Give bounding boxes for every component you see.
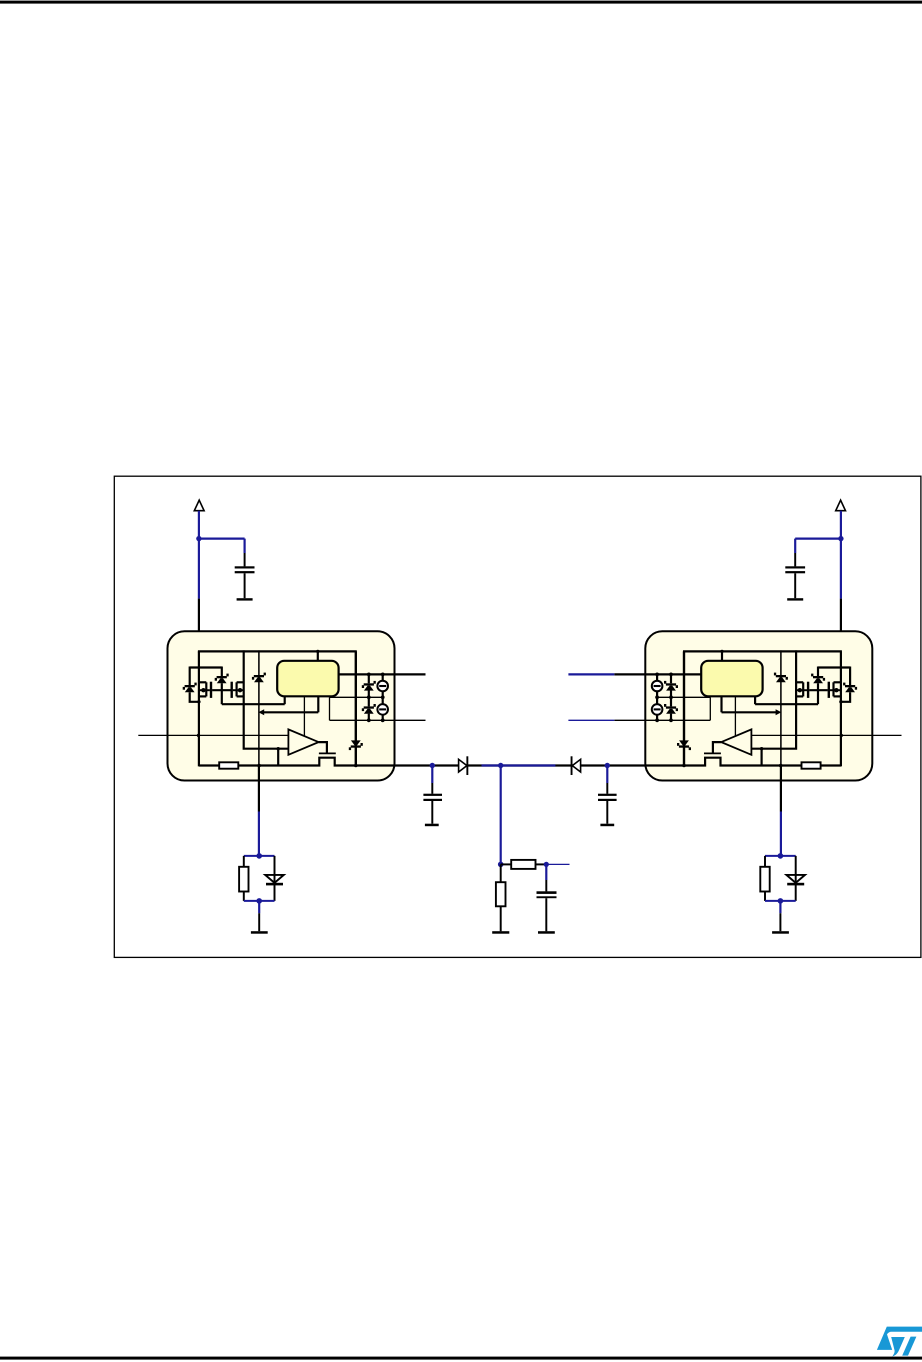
node clamp to rail [839, 700, 842, 703]
node middle network left [498, 862, 504, 868]
ground bar of C5 [538, 931, 555, 934]
node amp input junction [277, 747, 280, 750]
wire feedback line below IC [780, 766, 782, 812]
node top of network 6 right [778, 853, 784, 859]
zener D3 on feedback line [776, 675, 786, 677]
wire to ground 5 left [258, 901, 260, 913]
wire network bottom bar 6 right [765, 900, 796, 902]
wire network top bar 6 right [765, 855, 796, 857]
node input line junction [840, 734, 843, 737]
wire logic to amp noninverting [303, 696, 305, 736]
ground bar 6 right [772, 931, 789, 934]
wire vertical feedback line [258, 650, 260, 765]
wire network bottom bar 5 left [244, 900, 275, 902]
pin logic block top [721, 651, 723, 660]
wire feedback line below IC [258, 766, 260, 812]
wire VCC vertical (blue) [840, 511, 842, 599]
wire stub right (thin blue) [546, 863, 569, 865]
node rail-feedback junction [779, 764, 783, 768]
node rail C [605, 763, 610, 768]
wire top supply bus [683, 650, 842, 652]
wire sense bus vertical [355, 651, 357, 765]
zener D4 clamp [189, 667, 191, 686]
arrow head [258, 709, 264, 715]
wire clamp box top [818, 666, 850, 668]
wire logic drive with arrow [317, 696, 319, 712]
wire VCC vertical into IC (black) [198, 599, 200, 653]
left half: IC U1 with supply branch [138, 500, 425, 856]
zener D4 clamp [849, 667, 851, 686]
wire logic drive with arrow [720, 696, 722, 712]
resistor R4 vertical [500, 864, 502, 882]
wire sense bus vertical [683, 651, 685, 765]
wire node B down [500, 766, 502, 865]
wire output rail with Q3 bump [645, 758, 841, 766]
resistor R3 horizontal [501, 863, 512, 865]
ground bar of C4 [600, 824, 614, 827]
wire blue segment of mid rail [482, 764, 556, 766]
wire stub lower (blue, right side) [568, 719, 614, 721]
pin logic block top [317, 651, 319, 660]
current source I2 [382, 691, 384, 704]
zener D6 on sense bus [351, 740, 361, 745]
top page rule [0, 1, 922, 4]
wire clamp box top [190, 666, 222, 668]
node logic top pin [720, 650, 723, 653]
capacitor C1 bypass [244, 553, 246, 566]
wire top supply bus [198, 650, 357, 652]
ground bar of C3 [425, 824, 439, 827]
wire input signal line [751, 734, 901, 736]
transistor Q3 output MOSFET gate [704, 752, 721, 754]
current source I2 [656, 691, 658, 704]
node rail A [430, 763, 435, 768]
resistor R6 right [764, 856, 766, 867]
wire drive rail (thick) [614, 673, 701, 675]
wire amp input to output rail [277, 749, 279, 766]
wire to ground 6 right [779, 901, 781, 913]
right half: IC U2 (mirrored copy) [614, 500, 901, 856]
capacitor C1 bypass [794, 553, 796, 566]
wire vertical feedback line [780, 650, 782, 765]
node logic top pin [316, 650, 319, 653]
current source I1 [656, 674, 658, 680]
node VCC junction [838, 536, 843, 541]
wire vertical to amp input [751, 650, 796, 748]
wire to bypass capacitor [198, 538, 245, 540]
wire amp output to gate [319, 742, 327, 753]
wire vertical to amp input [244, 650, 289, 748]
zener D3 on feedback line [254, 675, 264, 677]
ground bar of C1 [787, 598, 803, 600]
wire VCC vertical into IC (black) [840, 599, 842, 653]
node top of network 5 left [256, 853, 262, 859]
node bus to output rail [682, 764, 686, 768]
wire VCC vertical (blue) [198, 511, 200, 599]
wire to logic block bottom [222, 703, 285, 705]
wire to bypass capacitor [795, 538, 842, 540]
wire main vertical VCC inside IC [198, 651, 200, 766]
ground bar 5 left [251, 931, 268, 934]
capacitor C4 [606, 766, 608, 784]
wire amp input to output rail [761, 749, 763, 766]
node rail-feedback junction [257, 764, 261, 768]
node amp input junction [760, 747, 763, 750]
resistor R1 [802, 762, 821, 768]
charge pump logic block [701, 661, 762, 697]
wire mid rail (thin) [330, 696, 383, 698]
node chain junctions [367, 673, 371, 677]
power supply arrow VCC [836, 500, 846, 511]
IC U1 body [168, 631, 395, 780]
wire gate link Q1-Q2 [212, 689, 231, 691]
capacitor C3 [431, 766, 433, 784]
op-amp comparator U1A [288, 729, 318, 754]
wire logic to amp noninverting [734, 696, 736, 736]
wire gate link Q1-Q2 [809, 689, 828, 691]
wire mid-bottom link [329, 697, 331, 720]
wire stub upper (blue, right side) [568, 673, 614, 675]
zener D6 on sense bus [679, 740, 689, 745]
node middle network right [544, 862, 549, 867]
wire output rail with Q3 bump [199, 758, 395, 766]
zener D6 right [795, 856, 797, 901]
charge pump logic block [277, 661, 338, 697]
zener D5 gate protect [221, 667, 223, 677]
diode D2 [572, 759, 580, 772]
IC U1 body [645, 631, 872, 780]
wire main vertical VCC inside IC [840, 651, 842, 766]
wire to logic block bottom [755, 703, 818, 705]
wire mid-bottom link [709, 697, 711, 720]
bottom page rule [0, 1357, 922, 1360]
op-amp comparator U1A [721, 729, 751, 754]
node bottom of network 6 right [778, 898, 784, 904]
transistor Q3 output MOSFET gate [319, 752, 336, 754]
transistor Q1 [210, 682, 212, 698]
transistor Q2 [231, 682, 233, 698]
resistor R5 left [243, 856, 245, 867]
diode D1 [459, 759, 467, 772]
transistor Q2 [807, 682, 809, 698]
wire mid rail between ICs [395, 764, 646, 766]
zener D5 gate protect [817, 667, 819, 677]
zener chain D7 D8 [670, 674, 672, 683]
wire bottom rail (thin) [330, 719, 426, 721]
wire amp output to gate [713, 742, 721, 753]
node rail B [498, 763, 503, 768]
capacitor C5 [545, 864, 547, 880]
arrow head [776, 709, 782, 715]
current source I1 [382, 674, 384, 680]
figure frame [114, 476, 921, 957]
wire input signal line [138, 734, 288, 736]
wire bottom rail (thin) [614, 719, 710, 721]
ST logo [877, 1327, 922, 1357]
resistor R1 [219, 762, 238, 768]
node clamp to rail [197, 700, 200, 703]
power supply arrow VCC [194, 500, 204, 511]
node bus to output rail [354, 764, 358, 768]
ground bar of C1 [237, 598, 253, 600]
wire mid rail (thin) [657, 696, 710, 698]
ground bar of R4 [492, 931, 509, 934]
transistor Q1 [828, 682, 830, 698]
node VCC junction [196, 536, 201, 541]
node chain junctions [669, 673, 673, 677]
wire drive rail (thick) [339, 673, 426, 675]
zener D5 left [274, 856, 276, 901]
node input line junction [197, 734, 200, 737]
zener chain D7 D8 [368, 674, 370, 683]
wire network top bar 5 left [244, 855, 275, 857]
node bottom of network 5 left [256, 898, 262, 904]
